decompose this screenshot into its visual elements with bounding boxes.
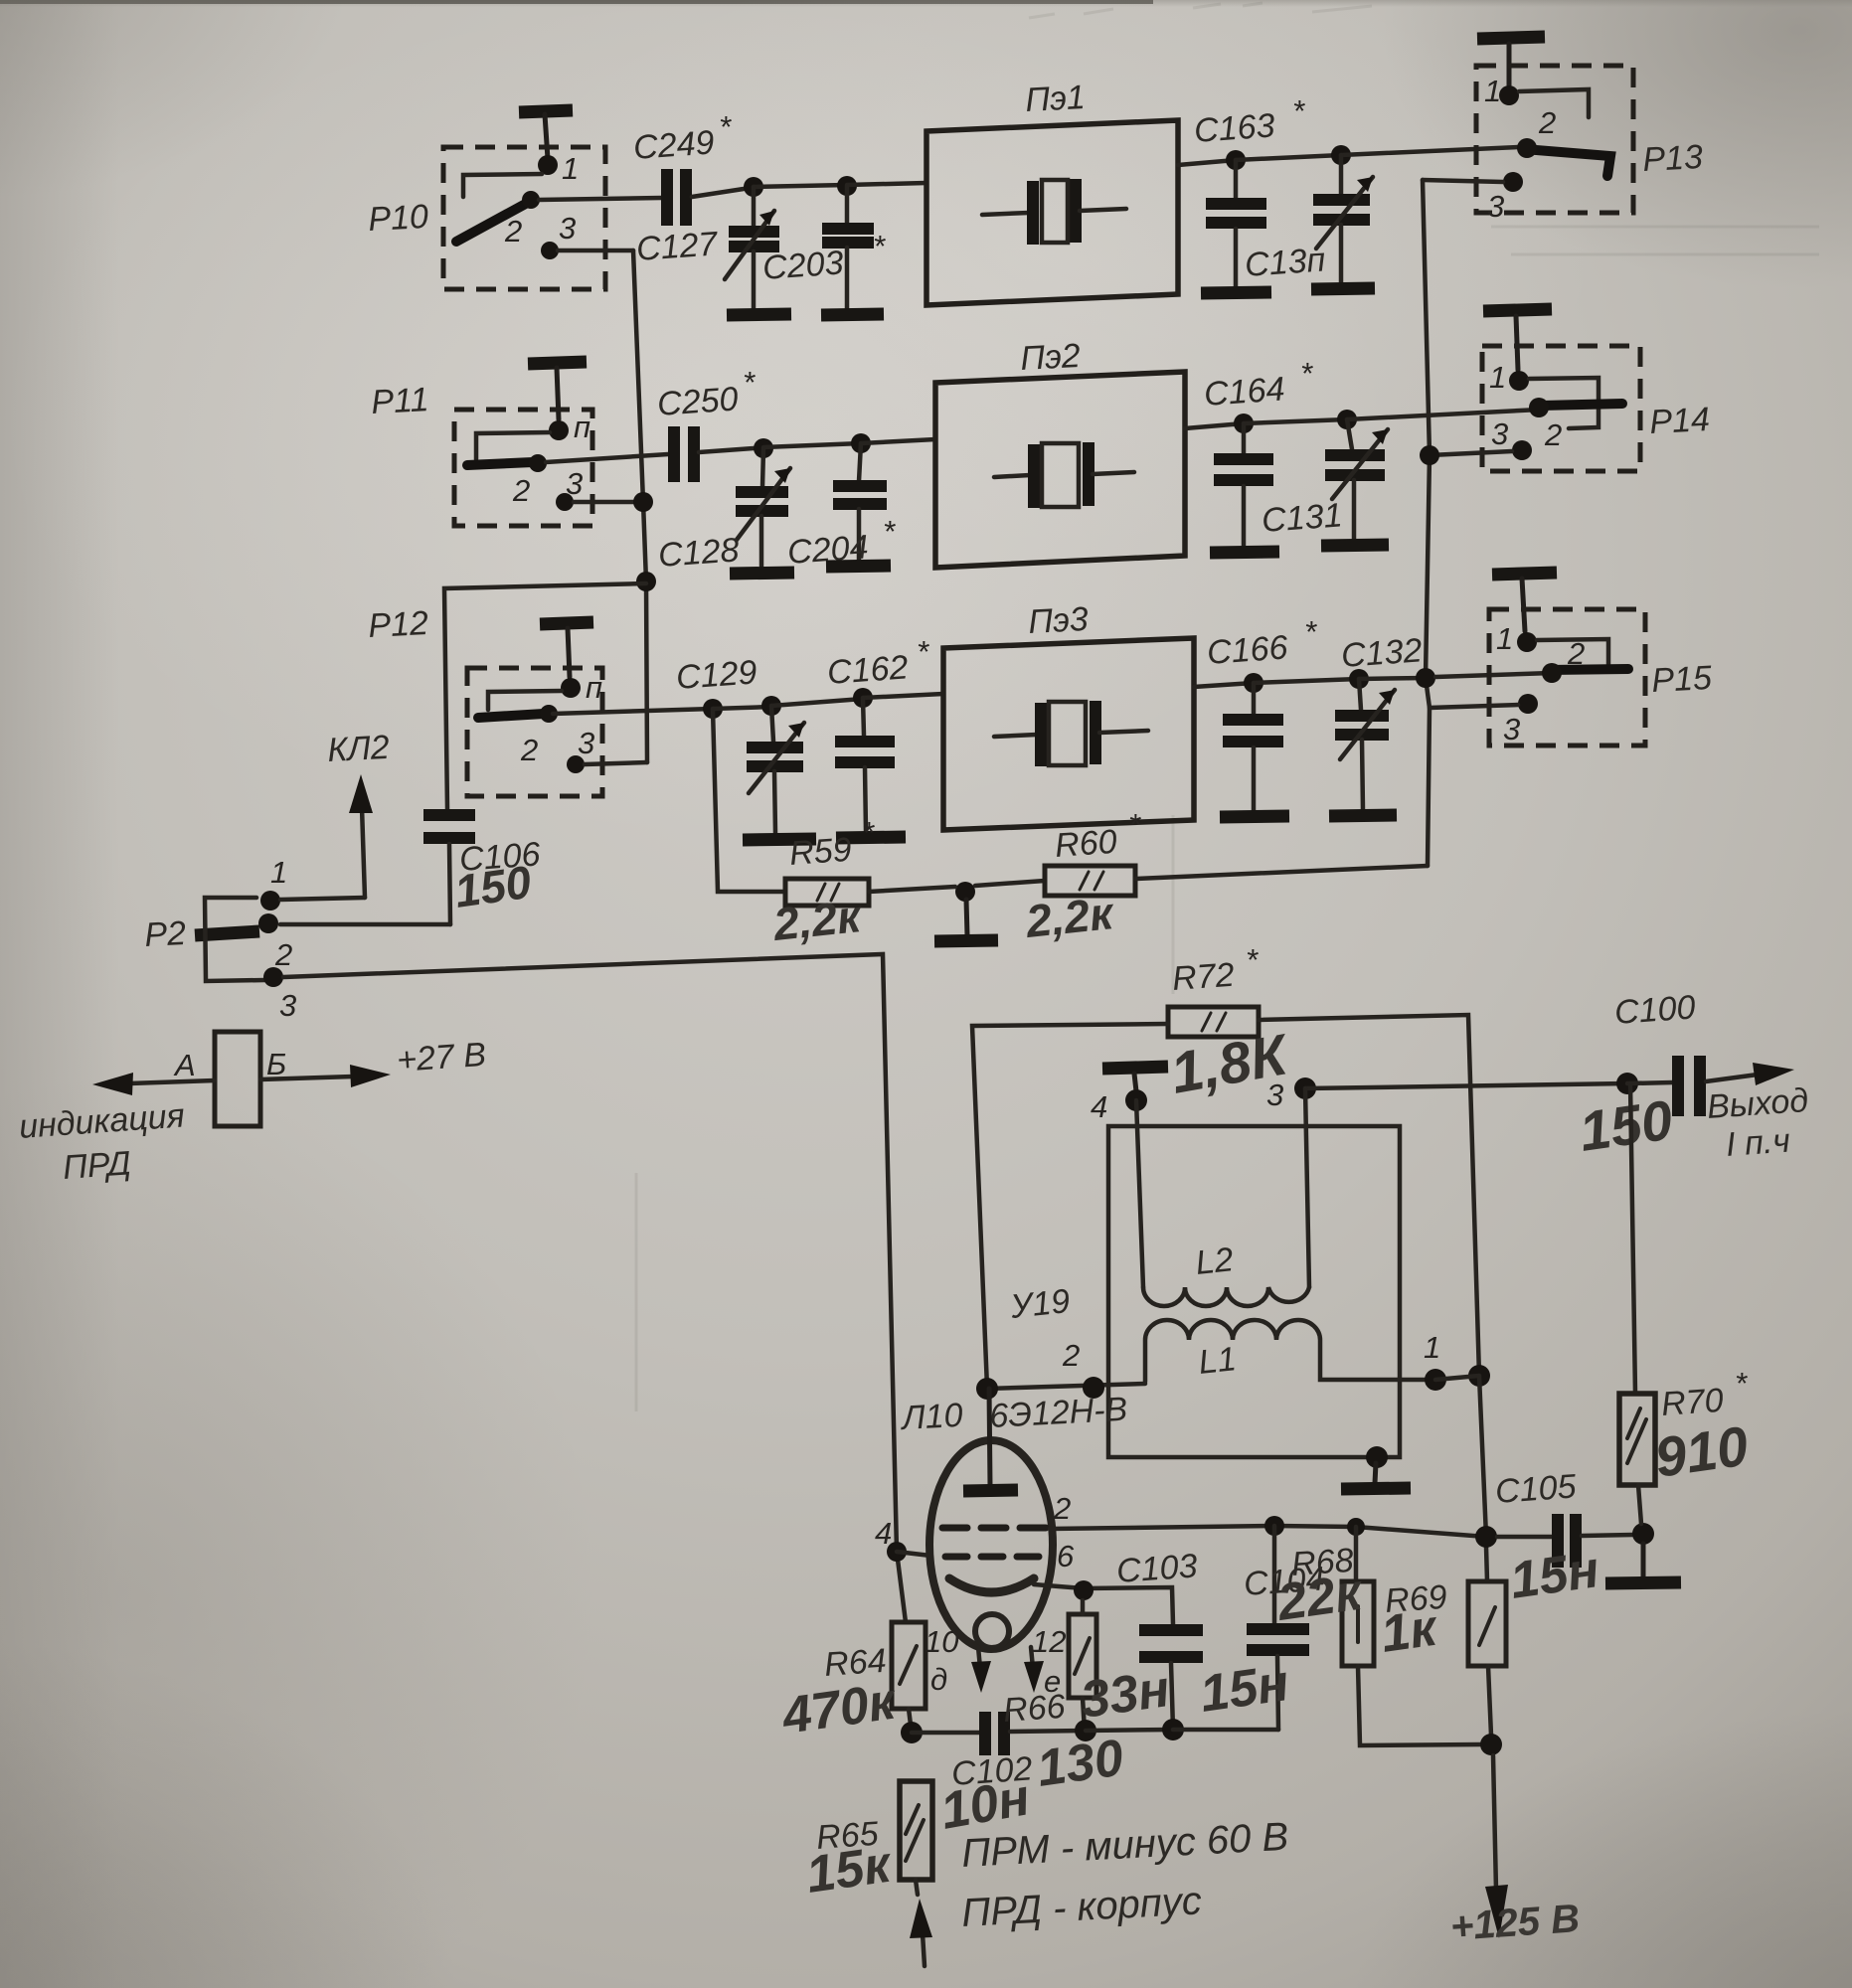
ground of C131 bbox=[1321, 545, 1389, 546]
relay P12 dashed contact box bbox=[467, 668, 602, 796]
node C105 left bbox=[1475, 1526, 1497, 1548]
svg-text:С250: С250 bbox=[656, 380, 740, 423]
node contact 2 of P13 bbox=[1517, 138, 1537, 158]
node C105 right bbox=[1632, 1523, 1654, 1545]
node 3 (transformer U19) bbox=[1294, 1077, 1316, 1099]
node P2 contact 2 bbox=[258, 913, 278, 933]
node 4 (transformer U19) bbox=[1125, 1089, 1147, 1111]
svg-text:2,2к: 2,2к bbox=[1023, 887, 1118, 947]
capacitor C164* bbox=[1214, 423, 1273, 547]
svg-text:+27 В: +27 В bbox=[396, 1036, 487, 1079]
tube L10 envelope bbox=[929, 1440, 1053, 1649]
relay P15 contact 3 node bbox=[1518, 694, 1538, 714]
svg-text:С162: С162 bbox=[826, 648, 910, 692]
svg-text:С164: С164 bbox=[1203, 370, 1286, 414]
svg-text:*: * bbox=[743, 365, 756, 400]
capacitor C106 bbox=[280, 815, 475, 924]
svg-text:4: 4 bbox=[1091, 1089, 1107, 1124]
wire between node1 dots bbox=[1435, 1376, 1479, 1380]
svg-text:С132: С132 bbox=[1340, 631, 1424, 675]
ground of C163 bbox=[1201, 292, 1271, 293]
svg-text:10: 10 bbox=[925, 1624, 958, 1659]
resistor R59 body bbox=[785, 879, 869, 906]
wire R72 right to node 1 bbox=[1259, 1015, 1479, 1376]
svg-text:С103: С103 bbox=[1115, 1547, 1199, 1590]
relay P15 contact 1 node bbox=[1517, 632, 1537, 652]
node 1 (L1 right) bbox=[1425, 1369, 1446, 1391]
svg-text:С203: С203 bbox=[761, 244, 845, 287]
relay P12 contact 1 node bbox=[561, 678, 581, 698]
ground above relay P13 bbox=[1477, 37, 1545, 85]
svg-text:С166: С166 bbox=[1206, 628, 1289, 672]
wire PE2 right pin to C164 bbox=[1185, 423, 1244, 428]
node contact 2 of P14 bbox=[1529, 398, 1549, 417]
inductor L2 (secondary) bbox=[1143, 1287, 1309, 1306]
svg-text:С131: С131 bbox=[1261, 496, 1344, 540]
svg-text:С100: С100 bbox=[1613, 988, 1697, 1032]
svg-text:3: 3 bbox=[279, 988, 296, 1023]
node contact 2 of P11 bbox=[529, 454, 547, 472]
wire junction to crystal box PE1 bbox=[847, 183, 926, 185]
transformer screen box bbox=[1108, 1126, 1400, 1457]
node junction C164 bbox=[1234, 414, 1254, 433]
inductor L1 (primary) bbox=[1145, 1320, 1435, 1382]
svg-text:L1: L1 bbox=[1197, 1340, 1239, 1382]
svg-text:150: 150 bbox=[451, 856, 535, 917]
svg-text:1: 1 bbox=[1484, 74, 1501, 108]
capacitor C203 bbox=[822, 186, 874, 310]
wire junction to relay P14 arm bbox=[1347, 410, 1540, 419]
heater pin 12 arrow bbox=[1024, 1647, 1044, 1693]
svg-text:С129: С129 bbox=[675, 653, 758, 697]
wire junction to relay P13 arm bbox=[1341, 147, 1519, 155]
svg-text:*: * bbox=[1246, 942, 1259, 977]
wire PE1 right pin to C163 bbox=[1178, 160, 1236, 165]
wire P11 contact 3 to left bus bbox=[574, 500, 643, 505]
relay P12 armature bbox=[478, 714, 544, 718]
wire junction down to R59 bbox=[713, 709, 785, 892]
svg-text:1: 1 bbox=[1496, 621, 1513, 656]
svg-text:1: 1 bbox=[562, 151, 579, 186]
svg-text:22к: 22к bbox=[1273, 1563, 1368, 1632]
svg-text:1: 1 bbox=[1424, 1330, 1440, 1365]
svg-text:С105: С105 bbox=[1494, 1467, 1578, 1511]
ground of C13p bbox=[1311, 288, 1375, 289]
wire node 4 to L2 left bbox=[1136, 1100, 1143, 1287]
svg-text:*: * bbox=[883, 514, 896, 549]
ground of C132 bbox=[1329, 815, 1397, 816]
ground of C105 bbox=[1605, 1544, 1681, 1583]
wire cathode to R66/C103 bbox=[1034, 1584, 1173, 1624]
capacitor C105 bbox=[1497, 1514, 1633, 1568]
svg-text:С249: С249 bbox=[632, 123, 716, 167]
capacitor C163* bbox=[1206, 160, 1266, 287]
wire R59 to node bbox=[869, 887, 955, 892]
svg-text:2: 2 bbox=[512, 473, 530, 508]
svg-text:Р2: Р2 bbox=[143, 914, 187, 954]
anode junction node bbox=[976, 1378, 998, 1400]
wire P10 arm to C249 bbox=[539, 198, 662, 200]
resistor R70 body bbox=[1619, 1083, 1655, 1524]
wire junction to C13p bbox=[1236, 155, 1341, 160]
svg-text:L2: L2 bbox=[1194, 1241, 1236, 1282]
heater of L10 bbox=[975, 1614, 1009, 1648]
svg-text:15к: 15к bbox=[803, 1835, 897, 1905]
svg-text:Пэ1: Пэ1 bbox=[1024, 79, 1086, 119]
relay P10 contact 1 node bbox=[538, 155, 558, 175]
wire rail C103 to C104 bbox=[1173, 1728, 1278, 1733]
heater pin 10 arrow bbox=[971, 1647, 991, 1693]
cathode node bbox=[1074, 1580, 1094, 1600]
crystal filter PE3 box bbox=[943, 638, 1194, 830]
resistor R72 body bbox=[1168, 1007, 1259, 1037]
svg-text:2,2к: 2,2к bbox=[770, 890, 866, 950]
node P2 contact 3 bbox=[263, 967, 283, 987]
wire junction to C129 bbox=[713, 707, 771, 709]
arrow output I p.ch. bbox=[1706, 1063, 1794, 1085]
screen ground node bbox=[1366, 1446, 1388, 1468]
svg-text:3: 3 bbox=[1487, 189, 1504, 224]
node junction C163 bbox=[1226, 150, 1246, 170]
svg-text:Р13: Р13 bbox=[1641, 138, 1703, 179]
capacitor C162* bbox=[835, 698, 895, 832]
svg-text:*: * bbox=[862, 815, 875, 850]
svg-text:*: * bbox=[1300, 356, 1313, 391]
relay P15 armature bbox=[1549, 669, 1628, 670]
resistor R69 body bbox=[1468, 1547, 1506, 1666]
relay P13 contact 3 node bbox=[1503, 172, 1523, 192]
wire node to R60 bbox=[975, 881, 1045, 886]
node junction C132 bbox=[1349, 669, 1369, 689]
capacitor C166* bbox=[1223, 683, 1283, 811]
crystal filter PE2 box bbox=[935, 372, 1185, 568]
node junction C203 bbox=[837, 176, 857, 196]
node 1a (R72 drop) bbox=[1468, 1365, 1490, 1387]
svg-text:33н: 33н bbox=[1078, 1660, 1173, 1730]
wire P10 contact 3 to left bus bbox=[558, 248, 633, 253]
wire contact-1 bracket of P14 bbox=[1529, 378, 1599, 428]
svg-text:С163: С163 bbox=[1193, 106, 1276, 150]
wire PE3 right pin to C166 bbox=[1194, 683, 1254, 687]
svg-text:*: * bbox=[1128, 807, 1141, 842]
node junction C166 bbox=[1244, 673, 1263, 693]
grid 1 of L10 (dashed) bbox=[945, 1554, 1039, 1561]
svg-text:*: * bbox=[719, 109, 732, 144]
relay P13 dashed contact box bbox=[1476, 66, 1633, 213]
crystal symbol inside PE3 bbox=[994, 701, 1148, 766]
node junction C127 bbox=[744, 177, 763, 197]
resistor R66 body bbox=[1069, 1614, 1096, 1698]
wire R68 to +125 node bbox=[1358, 1666, 1481, 1745]
relay P11 dashed contact box bbox=[454, 410, 592, 526]
svg-text:+125 В: +125 В bbox=[1449, 1897, 1582, 1949]
variable capacitor C131 bbox=[1325, 419, 1388, 539]
svg-text:6Э12Н-В: 6Э12Н-В bbox=[988, 1391, 1128, 1435]
svg-text:2: 2 bbox=[1062, 1338, 1080, 1373]
relay P14 dashed contact box bbox=[1482, 346, 1640, 471]
wire contact-1 bracket of P12 bbox=[488, 691, 562, 710]
node C106 branch on left bus bbox=[636, 572, 656, 591]
node row3 on right bus bbox=[1416, 668, 1435, 688]
wire contact-1 bracket of P13 bbox=[1519, 89, 1589, 117]
svg-text:Л10: Л10 bbox=[899, 1397, 963, 1437]
relay P13 armature bbox=[1524, 149, 1610, 176]
node P2 contact 1 bbox=[260, 891, 280, 911]
svg-text:1к: 1к bbox=[1378, 1598, 1442, 1663]
relay P10 dashed contact box bbox=[443, 147, 605, 289]
ground above relay P14 bbox=[1483, 309, 1552, 370]
variable capacitor C128 bbox=[736, 448, 790, 568]
relay P11 armature bbox=[467, 462, 533, 465]
svg-text:А: А bbox=[173, 1048, 196, 1082]
node junction row3 / R59 bbox=[703, 699, 723, 719]
wire contact-1 bracket of P11 bbox=[476, 432, 550, 459]
wire bus branch to C106 bbox=[444, 583, 646, 809]
svg-text:2: 2 bbox=[1538, 105, 1556, 140]
wire contact-1 bracket of P15 bbox=[1537, 639, 1608, 664]
node junction C128 bbox=[754, 438, 773, 458]
relay P11 contact 3 node bbox=[556, 493, 574, 511]
svg-text:*: * bbox=[873, 229, 886, 263]
wire contact-1 bracket of P10 bbox=[463, 174, 542, 197]
variable capacitor C127 bbox=[725, 187, 779, 310]
cathode of L10 bbox=[949, 1578, 1034, 1592]
svg-text:С13п: С13п bbox=[1244, 241, 1327, 284]
svg-text:2: 2 bbox=[1567, 636, 1585, 671]
relay P11 contact 1 node bbox=[549, 420, 569, 440]
ground above relay P12 bbox=[540, 622, 593, 677]
ground above relay P11 bbox=[528, 362, 587, 419]
node contact 2 of P15 bbox=[1542, 663, 1562, 683]
svg-text:С128: С128 bbox=[657, 531, 741, 575]
svg-text:3: 3 bbox=[1491, 416, 1508, 451]
svg-text:910: 910 bbox=[1651, 1413, 1752, 1488]
ground of C203 bbox=[821, 314, 884, 315]
variable capacitor C132 bbox=[1335, 679, 1395, 810]
svg-text:3: 3 bbox=[559, 211, 576, 246]
wire node 1 down to C105 junction bbox=[1479, 1376, 1486, 1537]
svg-text:R60: R60 bbox=[1054, 823, 1118, 865]
node junction C129 bbox=[761, 696, 781, 716]
capacitor C249 bbox=[667, 169, 744, 226]
wire node 3 to C100 bbox=[1305, 1083, 1627, 1088]
svg-text:2: 2 bbox=[504, 214, 522, 248]
svg-text:С127: С127 bbox=[635, 225, 720, 268]
svg-text:Пэ2: Пэ2 bbox=[1019, 337, 1081, 378]
wire R64 to cathode rail bbox=[909, 1709, 912, 1733]
wire grid 1 to node bbox=[897, 1552, 930, 1556]
svg-text:15н: 15н bbox=[1197, 1654, 1292, 1724]
wire node 3 to L2 right bbox=[1305, 1088, 1309, 1287]
rail node at R66 bbox=[1075, 1720, 1096, 1741]
node junction C13p bbox=[1331, 145, 1351, 165]
node 2 (grid of U19 primary) bbox=[1083, 1377, 1104, 1399]
svg-text:ПРД: ПРД bbox=[62, 1144, 132, 1187]
arrow KL2 bbox=[349, 774, 373, 898]
capacitor C204 bbox=[833, 443, 887, 561]
svg-text:R59: R59 bbox=[788, 831, 853, 873]
node grid 1 bbox=[887, 1542, 907, 1562]
ground at node 4 bbox=[1102, 1067, 1168, 1091]
crystal symbol inside PE2 bbox=[994, 442, 1134, 508]
svg-text:п: п bbox=[586, 670, 602, 705]
wire junction to C131 bbox=[1244, 419, 1347, 423]
left relay bus (P10-3 / P11-3 / C106 / P12-3) bbox=[633, 250, 647, 762]
svg-text:Р11: Р11 bbox=[370, 381, 429, 421]
svg-text:1: 1 bbox=[270, 855, 287, 890]
svg-text:*: * bbox=[1304, 614, 1317, 649]
ground above relay P15 bbox=[1492, 573, 1557, 631]
ground of C127 bbox=[727, 314, 791, 315]
wire P11 arm to C250 bbox=[546, 454, 668, 462]
svg-text:*: * bbox=[917, 634, 929, 669]
wire P13 contact 3 to right bus bbox=[1423, 180, 1503, 182]
wire R72 left to anode node bbox=[972, 1024, 1168, 1388]
wire R66 top to cathode node bbox=[1081, 1600, 1086, 1614]
arrow right to +27V bbox=[260, 1065, 391, 1087]
wire junction to C204 bbox=[763, 443, 861, 447]
connector P2 outline bracket bbox=[205, 898, 264, 981]
svg-text:Р12: Р12 bbox=[367, 604, 428, 645]
crystal filter PE1 box bbox=[926, 120, 1178, 305]
svg-text:12: 12 bbox=[1032, 1624, 1066, 1659]
wire junction to right bus bbox=[1359, 678, 1426, 679]
svg-text:Выход: Выход bbox=[1706, 1081, 1809, 1126]
wire P12 arm to row-3 line bbox=[553, 709, 713, 714]
svg-text:R72: R72 bbox=[1171, 956, 1236, 998]
capacitor C250 bbox=[674, 426, 754, 482]
ground of screen bbox=[1341, 1463, 1411, 1489]
node contact 2 of P12 bbox=[540, 705, 558, 723]
wire P2-3 keying line to tube grid 1 bbox=[283, 954, 906, 1622]
svg-text:3: 3 bbox=[1503, 712, 1520, 746]
wire R60 to right bus bbox=[1135, 866, 1428, 879]
wire rail to C102 bbox=[912, 1731, 979, 1736]
svg-text:2: 2 bbox=[1544, 417, 1562, 452]
svg-text:6: 6 bbox=[1057, 1539, 1075, 1574]
wire junction to C162 bbox=[771, 699, 863, 706]
svg-text:*: * bbox=[1735, 1366, 1748, 1401]
relay P15 dashed contact box bbox=[1489, 609, 1645, 745]
svg-text:2: 2 bbox=[1053, 1491, 1071, 1526]
grid 2 of L10 (dashed) bbox=[942, 1525, 1046, 1532]
wire P14 contact 3 to right bus bbox=[1430, 451, 1512, 455]
node junction C162 bbox=[853, 688, 873, 708]
svg-text:Пэ3: Пэ3 bbox=[1027, 600, 1089, 641]
wire P12 contact 3 to left bus bbox=[585, 762, 647, 764]
relay P10 armature (contact 2) bbox=[456, 200, 533, 242]
relay P14 armature bbox=[1542, 404, 1622, 406]
wire grid 2 to C104/R68/C105 bbox=[1050, 1526, 1486, 1537]
ground at R59/R60 node bbox=[934, 900, 998, 941]
anode of L10 bbox=[963, 1389, 1018, 1491]
wire junction to C203 bbox=[754, 185, 847, 187]
node grid2 / C104 bbox=[1264, 1516, 1284, 1536]
variable capacitor C13p bbox=[1313, 155, 1373, 283]
resistor R64 body bbox=[892, 1622, 926, 1709]
ground of C162 bbox=[836, 837, 906, 838]
svg-text:150: 150 bbox=[1576, 1087, 1676, 1162]
svg-text:I п.ч: I п.ч bbox=[1725, 1122, 1791, 1164]
resistor R60 body bbox=[1045, 866, 1135, 896]
node P14-3 on right bus bbox=[1420, 445, 1439, 465]
node junction C204 bbox=[851, 433, 871, 453]
rail node at C103 bbox=[1162, 1719, 1184, 1740]
crystal symbol inside PE1 bbox=[982, 179, 1126, 245]
capacitor C102 bbox=[985, 1712, 1004, 1755]
wire anode node to node 2 bbox=[987, 1384, 1145, 1389]
arrow +125V bbox=[1485, 1755, 1508, 1938]
wire junction to crystal box PE3 bbox=[863, 694, 943, 698]
wire junction to C132 bbox=[1254, 679, 1359, 683]
svg-text:R66: R66 bbox=[1002, 1688, 1067, 1730]
svg-text:д: д bbox=[930, 1662, 947, 1697]
cathode rail left node bbox=[901, 1722, 923, 1743]
wire P2-1 to KL2 bbox=[280, 898, 365, 900]
svg-text:15н: 15н bbox=[1507, 1541, 1602, 1610]
node junction C100/R70 bbox=[1616, 1073, 1638, 1094]
arrow into R65 from below bbox=[910, 1899, 932, 1966]
wire C102 to R66 rail node bbox=[1010, 1731, 1086, 1732]
node R68 tap bbox=[1347, 1518, 1365, 1536]
svg-text:Р15: Р15 bbox=[1650, 659, 1712, 700]
svg-text:2: 2 bbox=[274, 937, 292, 972]
relay P13 contact 1 node bbox=[1499, 85, 1519, 105]
wire rail R66 to C103 bbox=[1086, 1730, 1173, 1731]
ground of C164 bbox=[1210, 552, 1279, 553]
node P11-3 on left bus bbox=[633, 492, 653, 512]
capacitor C100 bbox=[1627, 1056, 1700, 1116]
svg-text:3: 3 bbox=[1266, 1077, 1283, 1112]
capacitor C104 bbox=[1247, 1526, 1309, 1730]
capacitor C103 bbox=[1139, 1630, 1203, 1730]
arrow left (indication) bbox=[92, 1073, 215, 1095]
svg-text:*: * bbox=[1292, 93, 1305, 128]
svg-text:п: п bbox=[574, 410, 590, 444]
relay P10 contact 3 node bbox=[541, 242, 559, 259]
wire bus to relay P15 arm bbox=[1435, 673, 1552, 677]
svg-text:2: 2 bbox=[520, 733, 538, 767]
wire R66 bottom to rail bbox=[1083, 1698, 1085, 1731]
wire R69 to +125 node bbox=[1488, 1666, 1491, 1736]
node junction C131 bbox=[1337, 410, 1357, 429]
svg-text:КЛ2: КЛ2 bbox=[326, 729, 390, 769]
connector P2 pin bar bbox=[195, 931, 259, 935]
node between R59 and R60 bbox=[955, 882, 975, 902]
relay P14 contact 1 node bbox=[1509, 371, 1529, 391]
ground above relay P10 bbox=[519, 110, 573, 159]
resistor R65 body bbox=[900, 1781, 932, 1895]
ground of C204 bbox=[826, 566, 891, 567]
right relay bus (P13-3 / P14-3 / row3 / P15) bbox=[1423, 180, 1430, 866]
node +125V bbox=[1480, 1734, 1502, 1755]
svg-text:У19: У19 bbox=[1008, 1282, 1072, 1326]
ground of C129 bbox=[743, 839, 816, 840]
node contact 2 of P10 bbox=[522, 191, 540, 209]
wire junction to crystal box PE2 bbox=[861, 439, 935, 443]
ground of C166 bbox=[1220, 816, 1289, 817]
relay P12 contact 3 node bbox=[567, 755, 585, 773]
variable capacitor C129 bbox=[747, 706, 804, 833]
svg-text:Р10: Р10 bbox=[367, 198, 428, 239]
wire P15 contact 3 to right bus bbox=[1430, 705, 1518, 708]
svg-text:1: 1 bbox=[1489, 360, 1506, 395]
svg-text:3: 3 bbox=[578, 726, 594, 760]
svg-text:Б: Б bbox=[266, 1047, 286, 1081]
ground of C128 bbox=[730, 573, 794, 574]
resistor R68 body bbox=[1342, 1527, 1374, 1666]
relay P14 contact 3 node bbox=[1512, 440, 1532, 460]
